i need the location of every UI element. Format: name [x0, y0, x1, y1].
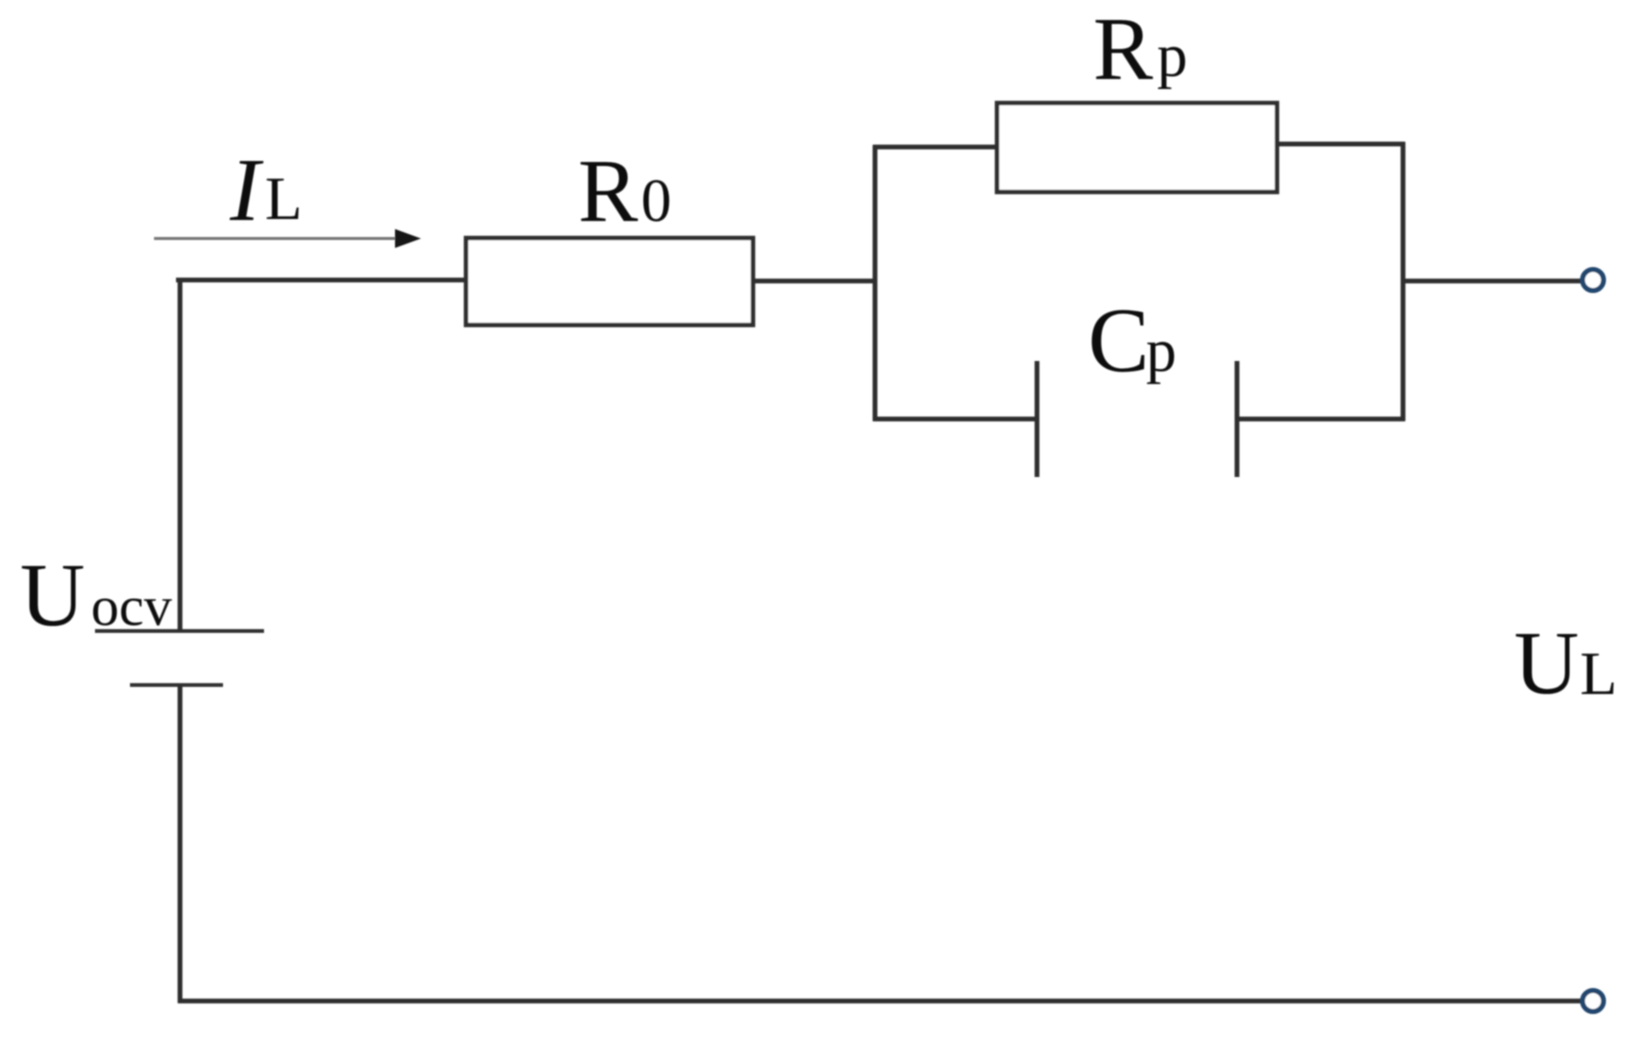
terminal circle top [1583, 270, 1604, 291]
wire left vertical upper [178, 278, 183, 632]
svg-text:p: p [1157, 23, 1188, 90]
capacitor Cp left plate [1035, 361, 1040, 477]
svg-text:I: I [229, 141, 264, 240]
wire bottom branch left to Cp [873, 417, 1037, 422]
svg-text:U: U [20, 546, 85, 645]
wire bottom horizontal [178, 999, 1581, 1004]
wire output top [1403, 279, 1581, 284]
capacitor Cp right plate [1235, 361, 1240, 477]
label IL [229, 141, 302, 240]
label UL [1514, 614, 1617, 713]
label Cp [1088, 289, 1177, 391]
label Uocv [20, 546, 172, 645]
wire Rp to parallel right vertical [1277, 142, 1405, 147]
label Rp [1093, 0, 1188, 99]
svg-text:ocv: ocv [91, 576, 172, 638]
svg-text:R: R [578, 142, 638, 241]
label R0 [578, 142, 672, 241]
wire parallel left vertical [873, 145, 878, 421]
svg-text:C: C [1088, 289, 1149, 391]
battery U_ocv long plate [95, 629, 264, 633]
svg-text:U: U [1514, 614, 1579, 713]
wire R0 to parallel block [753, 279, 877, 284]
current arrow IL [154, 229, 421, 248]
svg-text:p: p [1146, 318, 1177, 385]
svg-text:L: L [265, 166, 302, 233]
svg-text:L: L [1580, 641, 1617, 708]
svg-text:R: R [1093, 0, 1153, 99]
wire parallel right vertical [1401, 142, 1406, 421]
battery U_ocv short plate [130, 683, 223, 687]
svg-text:0: 0 [641, 168, 672, 235]
resistor Rp [997, 103, 1277, 192]
resistor R0 [466, 238, 753, 325]
terminal circle bottom [1583, 991, 1604, 1012]
wire top-left horizontal [176, 278, 466, 283]
wire parallel top-left to Rp [873, 145, 997, 150]
wire bottom branch Cp to right vertical [1237, 417, 1405, 422]
wire left vertical lower [178, 685, 183, 1003]
